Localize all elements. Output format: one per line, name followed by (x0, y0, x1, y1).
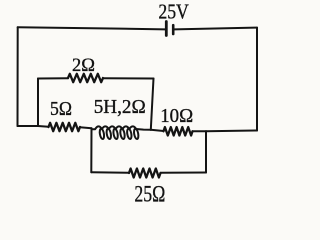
inductor L1 loop 1 (99, 128, 105, 139)
wire 25ohm row right (161, 172, 207, 174)
inductor L1 loop 3 (113, 128, 119, 139)
resistor R3 10ohm (164, 127, 193, 135)
wire 5ohm to node A (80, 126, 92, 129)
wire 25ohm branch right vertical (205, 131, 207, 172)
wire 2ohm row left (38, 77, 68, 79)
svg-text:25Ω: 25Ω (134, 182, 165, 206)
battery V1 right plate (172, 25, 175, 34)
svg-text:25V: 25V (158, 0, 189, 23)
wire 25ohm branch left vertical (90, 128, 92, 172)
resistor R2 5ohm (49, 123, 81, 131)
svg-text:10Ω: 10Ω (160, 105, 193, 127)
svg-text:5Ω: 5Ω (50, 98, 72, 120)
wire top right (battery to corner) (174, 28, 257, 30)
wire 25ohm row left (91, 171, 129, 174)
wire left edge (17, 27, 19, 126)
inductor L1 loop 6 (133, 128, 139, 139)
svg-text:5H,2Ω: 5H,2Ω (94, 97, 146, 118)
wire 2ohm branch right vertical (151, 79, 154, 130)
wire inductor to node B (136, 128, 151, 131)
svg-text:2Ω: 2Ω (72, 55, 95, 76)
wire bottom-left connector (18, 125, 39, 127)
battery V1 left plate (165, 22, 168, 36)
wire 10ohm to node C (193, 130, 207, 132)
inductor L1 loop 2 (106, 128, 112, 139)
wire 2ohm row right (103, 77, 154, 79)
wire 2ohm branch left vertical (37, 79, 39, 127)
wire top left (to battery) (18, 27, 166, 29)
wire main row left lead (38, 125, 49, 128)
wire node B to 10ohm (151, 130, 164, 131)
wire node C to right edge (206, 130, 257, 133)
resistor R1 2ohm (68, 74, 103, 82)
resistor R4 25ohm (129, 169, 161, 178)
wire right edge (256, 28, 258, 131)
inductor L1 loop 4 (120, 128, 126, 139)
inductor L1 loop 5 (126, 128, 132, 139)
inductor L1 humps (92, 126, 137, 129)
